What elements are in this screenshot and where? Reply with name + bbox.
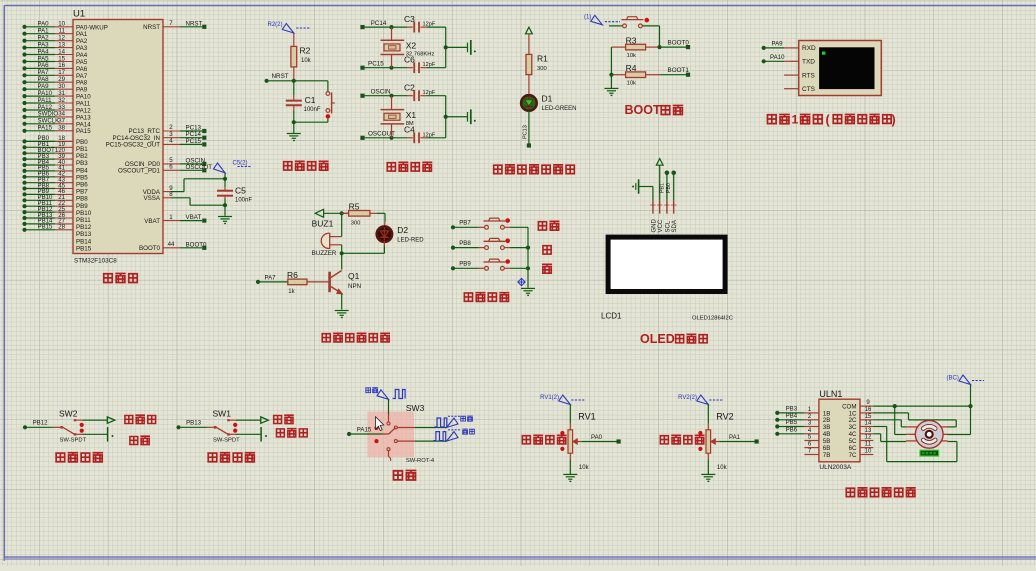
svg-text:PB1: PB1 [76, 146, 88, 153]
svg-text:PB3: PB3 [76, 160, 88, 167]
svg-text:300: 300 [537, 66, 547, 72]
svg-text:PB13: PB13 [186, 419, 202, 426]
svg-text:PB15: PB15 [76, 245, 92, 252]
svg-text:OSCOUT_PD1: OSCOUT_PD1 [118, 168, 161, 175]
svg-text:R4: R4 [626, 63, 637, 73]
svg-text:): ) [892, 113, 896, 127]
svg-text:PA8: PA8 [76, 80, 88, 87]
svg-text:PA15: PA15 [76, 128, 91, 135]
svg-text:8M: 8M [406, 121, 414, 127]
svg-text:ULN1: ULN1 [819, 389, 842, 399]
svg-text:VBAT: VBAT [186, 214, 202, 221]
svg-text:BOOT0: BOOT0 [668, 40, 690, 47]
svg-text:PA1: PA1 [38, 28, 50, 35]
svg-text:10k: 10k [301, 58, 312, 64]
svg-text:15: 15 [865, 414, 872, 420]
svg-text:12pF: 12pF [423, 132, 436, 138]
svg-text:PC15: PC15 [368, 61, 384, 68]
svg-text:29: 29 [58, 76, 65, 83]
svg-text:NPN: NPN [348, 283, 361, 290]
svg-text:SW-ROT-4: SW-ROT-4 [406, 458, 435, 464]
svg-text:PB7: PB7 [459, 220, 471, 227]
svg-text:16: 16 [865, 407, 872, 413]
svg-text:28: 28 [58, 224, 65, 231]
svg-text:PA15: PA15 [38, 125, 53, 132]
svg-text:SDA: SDA [672, 220, 678, 232]
svg-text:PB8: PB8 [76, 196, 88, 203]
svg-text:NRST: NRST [186, 20, 203, 27]
svg-text:PB5: PB5 [786, 419, 798, 426]
svg-text:38: 38 [58, 125, 65, 132]
svg-text:OSCIN: OSCIN [371, 89, 391, 96]
svg-text:10: 10 [865, 449, 872, 455]
svg-text:12pF: 12pF [423, 62, 436, 68]
svg-text:TXD: TXD [802, 59, 815, 66]
svg-text:PA7: PA7 [265, 274, 277, 281]
svg-text:SW-SPDT: SW-SPDT [60, 438, 87, 444]
svg-text:OSCOUT: OSCOUT [186, 164, 213, 171]
svg-text:C5(2): C5(2) [233, 161, 248, 167]
svg-text:RV2: RV2 [716, 412, 733, 422]
svg-text:PB9: PB9 [76, 203, 88, 210]
svg-text:PA4: PA4 [38, 48, 50, 55]
svg-text:VSSA: VSSA [143, 195, 160, 202]
svg-text:14: 14 [865, 421, 872, 427]
svg-text:PB12: PB12 [33, 419, 49, 426]
svg-text:PB6: PB6 [76, 182, 88, 189]
svg-text:BUZZER: BUZZER [312, 250, 337, 257]
svg-text:PB6: PB6 [786, 426, 798, 433]
svg-text:PA1: PA1 [76, 31, 88, 38]
svg-text:44: 44 [168, 241, 175, 248]
svg-text:D2: D2 [397, 225, 408, 235]
svg-text:LCD1: LCD1 [601, 312, 622, 321]
svg-text:PB0: PB0 [666, 183, 672, 193]
svg-text:37: 37 [58, 118, 65, 125]
svg-text:PA11: PA11 [76, 101, 91, 108]
svg-text:PC14: PC14 [371, 20, 387, 27]
svg-text:VBAT: VBAT [144, 218, 160, 225]
svg-text:BOOT: BOOT [625, 103, 661, 117]
svg-text:BOOT0: BOOT0 [186, 241, 208, 248]
svg-text:7C: 7C [849, 452, 857, 459]
svg-text:BOOT0: BOOT0 [139, 245, 161, 252]
svg-text:X2: X2 [406, 40, 417, 50]
svg-text:SCL: SCL [665, 220, 671, 232]
svg-text:OLED12864I2C: OLED12864I2C [692, 316, 733, 322]
svg-text:PA5: PA5 [76, 59, 88, 66]
svg-text:10k: 10k [627, 80, 636, 86]
svg-text:R1: R1 [537, 54, 548, 64]
svg-text:SW-SPDT: SW-SPDT [213, 438, 240, 444]
svg-text:C2: C2 [404, 83, 415, 93]
svg-text:ULN2003A: ULN2003A [819, 464, 851, 471]
svg-text:RV1(2): RV1(2) [540, 395, 559, 401]
svg-text:PA9: PA9 [772, 40, 784, 47]
svg-text:STM32F103C8: STM32F103C8 [74, 258, 117, 265]
svg-text:RXD: RXD [802, 45, 816, 52]
svg-text:5C: 5C [849, 438, 857, 445]
svg-text:R6: R6 [287, 270, 298, 280]
svg-text:PB13: PB13 [76, 231, 92, 238]
svg-text:32: 32 [58, 97, 65, 104]
svg-text:11: 11 [865, 442, 872, 448]
svg-text:PC15-OSC32_OUT: PC15-OSC32_OUT [106, 142, 161, 149]
svg-text:PB1: PB1 [659, 183, 665, 193]
svg-text:D1: D1 [542, 94, 553, 104]
svg-text:PB8: PB8 [459, 240, 471, 247]
svg-text:PA11: PA11 [38, 97, 53, 104]
svg-text:PB2: PB2 [76, 153, 88, 160]
svg-text:10k: 10k [627, 53, 636, 59]
svg-text:PA15: PA15 [357, 426, 372, 433]
svg-text:PB4: PB4 [76, 167, 88, 174]
svg-text:PB10: PB10 [76, 210, 92, 217]
svg-text:R5: R5 [349, 201, 360, 211]
svg-text:PA0: PA0 [591, 434, 603, 441]
svg-text:PC15: PC15 [186, 138, 202, 145]
svg-text:X1: X1 [406, 110, 417, 120]
svg-text:PB12: PB12 [76, 224, 92, 231]
svg-text:3B: 3B [823, 424, 831, 431]
svg-text:PB14: PB14 [76, 238, 92, 245]
svg-text:(BC): (BC) [947, 376, 959, 382]
svg-text:R3: R3 [626, 36, 637, 46]
svg-text:PB7: PB7 [76, 189, 88, 196]
svg-text:RTS: RTS [802, 72, 816, 79]
svg-text:PB15: PB15 [38, 224, 54, 231]
svg-text:LED-RED: LED-RED [397, 238, 424, 244]
svg-text:BOOT1: BOOT1 [668, 67, 690, 74]
svg-text:PA1: PA1 [729, 434, 741, 441]
svg-text:NRST: NRST [272, 73, 289, 80]
svg-text:7B: 7B [823, 452, 831, 459]
svg-text:PB0: PB0 [76, 139, 88, 146]
svg-text:100nF: 100nF [304, 107, 321, 113]
svg-text:C1: C1 [305, 95, 316, 105]
svg-text:C5: C5 [235, 186, 246, 196]
svg-text:PB9: PB9 [459, 261, 471, 268]
svg-text:C3: C3 [404, 14, 415, 24]
svg-text:CTS: CTS [802, 86, 816, 93]
svg-text:RV2(2): RV2(2) [678, 395, 697, 401]
svg-text:12: 12 [865, 435, 872, 441]
svg-text:1: 1 [792, 113, 799, 127]
svg-text:OLED: OLED [640, 332, 675, 346]
svg-text:NRST: NRST [143, 24, 160, 31]
svg-text:SW1: SW1 [213, 409, 232, 419]
svg-text:PA8: PA8 [38, 76, 50, 83]
svg-text:SW2: SW2 [59, 409, 78, 419]
svg-text:Q1: Q1 [348, 271, 360, 281]
svg-text:LED-GREEN: LED-GREEN [542, 106, 577, 112]
svg-text:RV1: RV1 [578, 412, 595, 422]
svg-text:PA10: PA10 [770, 54, 785, 61]
svg-text:3C: 3C [849, 424, 857, 431]
svg-text:SW3: SW3 [406, 403, 425, 413]
svg-text:1k: 1k [288, 289, 295, 295]
svg-text:10k: 10k [717, 465, 728, 471]
svg-text:12pF: 12pF [423, 22, 436, 28]
svg-text:13: 13 [865, 428, 872, 434]
svg-text:PB5: PB5 [76, 174, 88, 181]
svg-text:U1: U1 [73, 9, 85, 20]
svg-text:R2: R2 [300, 46, 311, 56]
svg-text:BUZ1: BUZ1 [312, 219, 334, 229]
svg-text:5B: 5B [823, 438, 831, 445]
svg-text:(1): (1) [584, 14, 591, 20]
svg-text:VCC: VCC [658, 219, 664, 232]
svg-text:300: 300 [351, 221, 361, 227]
svg-text:PC13: PC13 [523, 125, 529, 139]
svg-text:GND: GND [651, 219, 657, 233]
svg-text:32.768KHz: 32.768KHz [406, 52, 435, 58]
svg-text:11: 11 [59, 28, 66, 35]
svg-text:R2(2): R2(2) [268, 22, 283, 28]
svg-text:12pF: 12pF [423, 90, 436, 96]
svg-text:14: 14 [58, 48, 65, 55]
svg-text:SWCLK: SWCLK [38, 118, 60, 125]
svg-text:100nF: 100nF [235, 198, 252, 204]
svg-text:10k: 10k [579, 465, 590, 471]
svg-text:PB11: PB11 [76, 217, 91, 224]
